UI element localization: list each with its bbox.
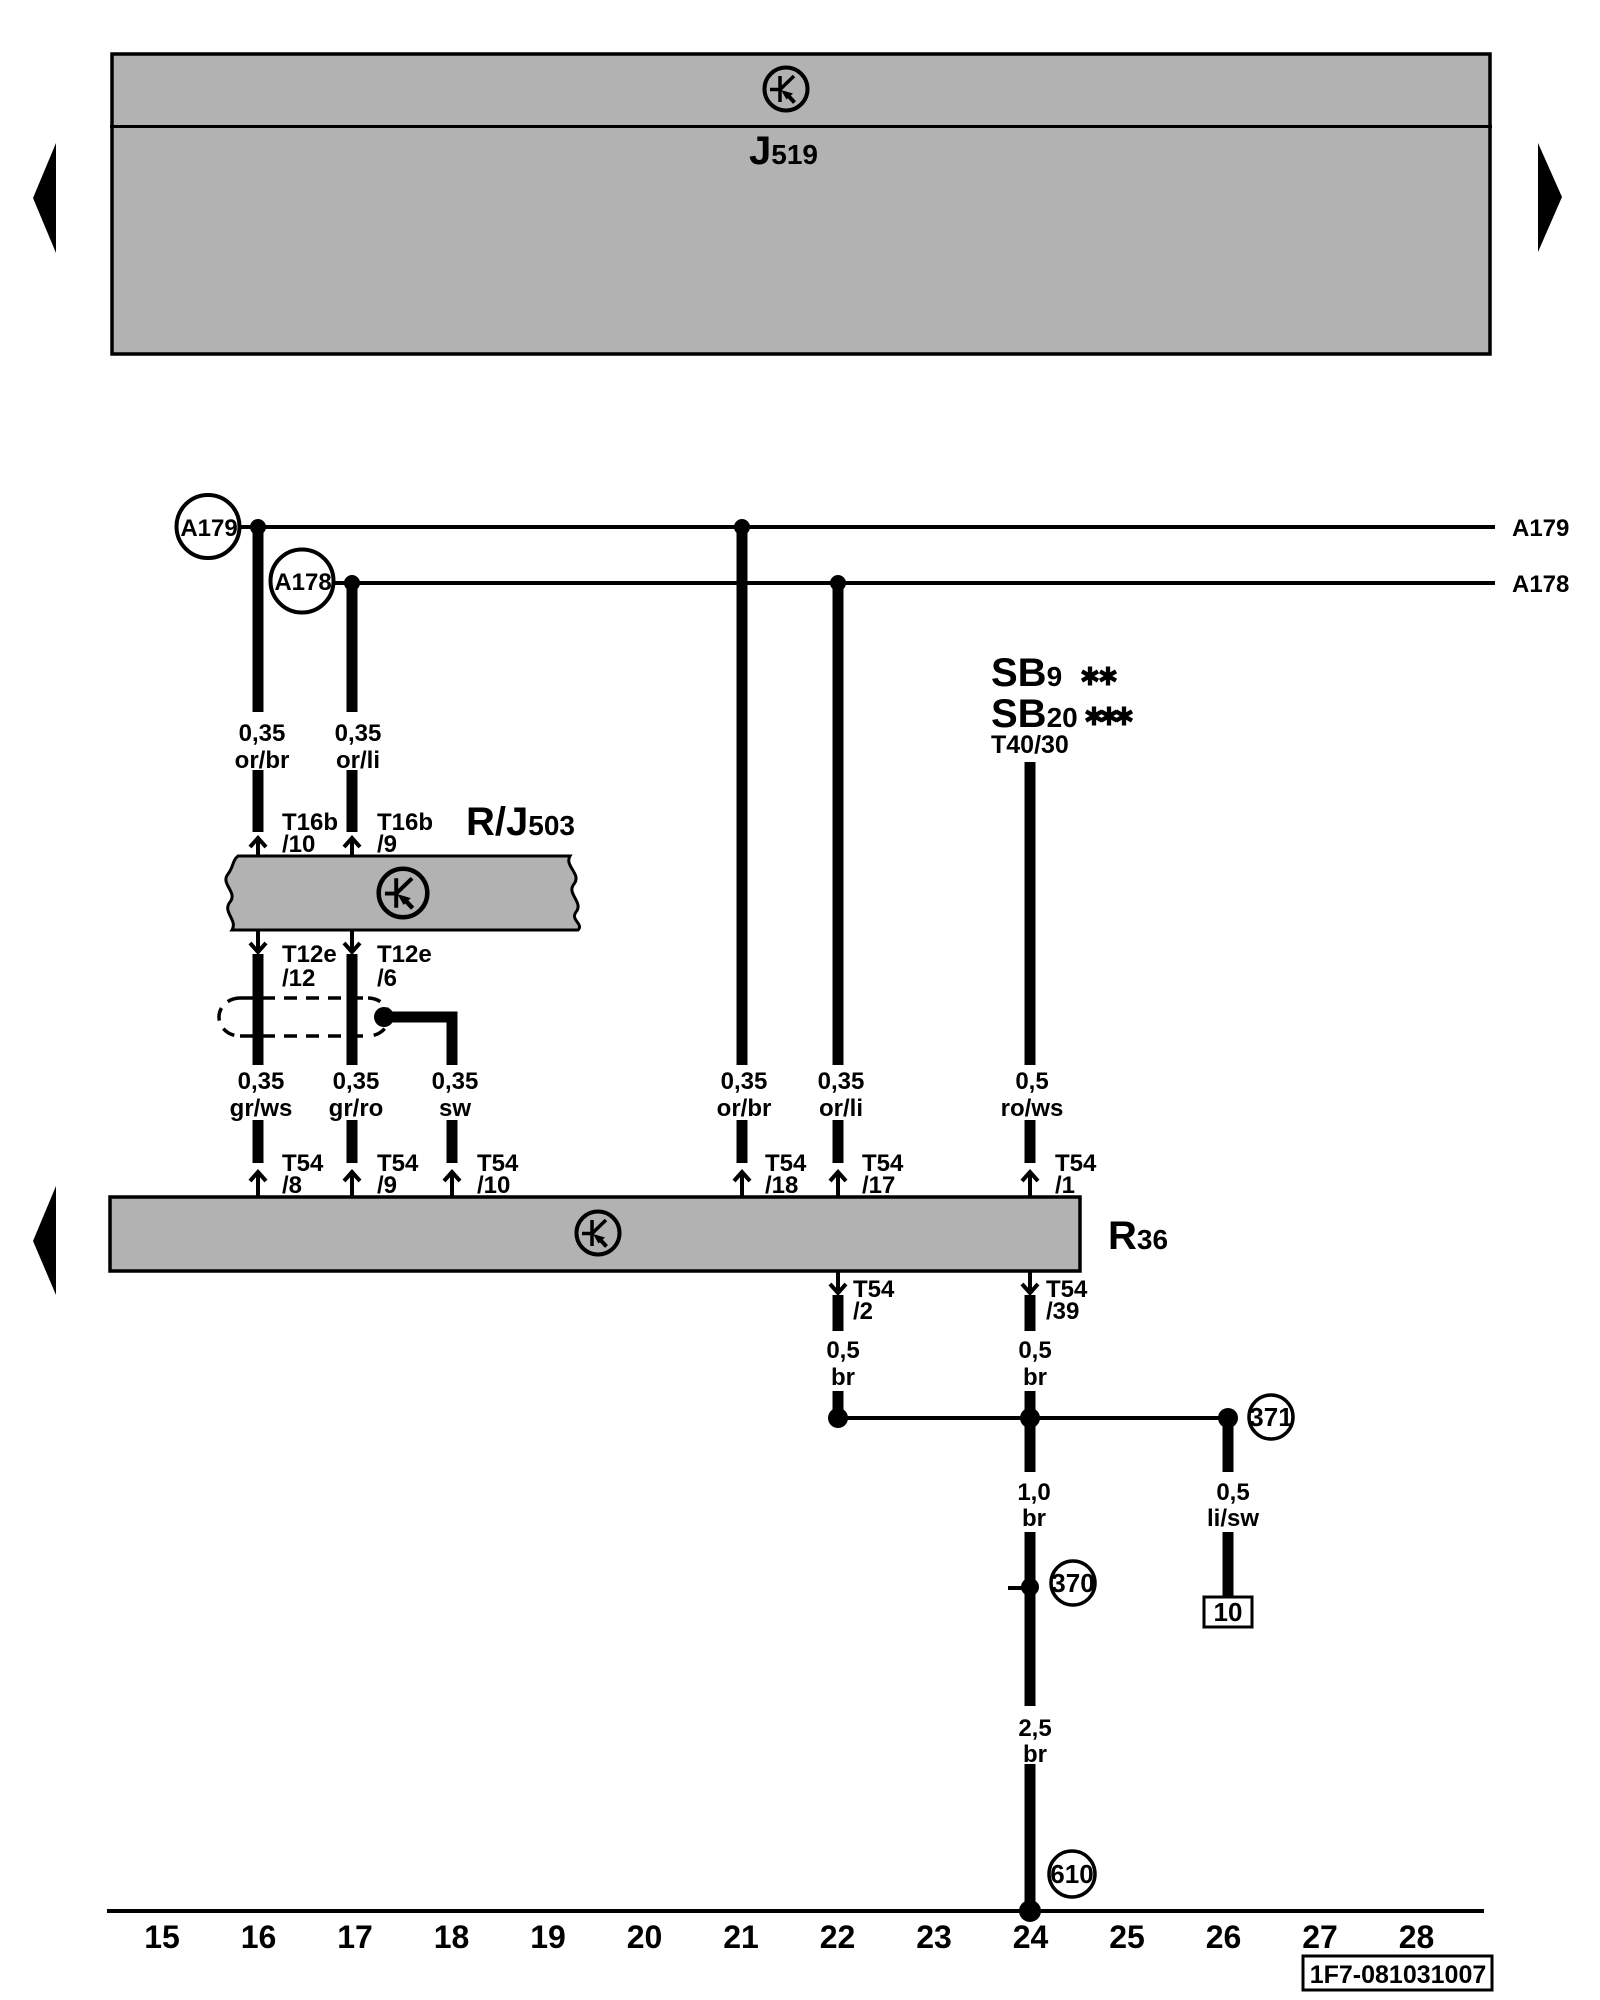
connector arrow into R36 pin T54/18 [734, 1172, 750, 1197]
svg-text:18: 18 [434, 1919, 470, 1955]
svg-text:sw: sw [439, 1095, 471, 1122]
wire 0,5 li/sw col26 upper [1223, 1418, 1234, 1472]
fuse label SB9 ** [991, 651, 1116, 695]
svg-text:0,35: 0,35 [333, 1068, 380, 1095]
connector arrow into R36 pin T54/17 [830, 1172, 846, 1197]
wire 0,35 or/li lower col17 [347, 770, 358, 832]
junction ground bus col24 [1020, 1408, 1040, 1428]
ground bus wire (y=1418) [838, 1416, 1228, 1420]
svg-text:A179: A179 [1512, 515, 1569, 542]
svg-text:28: 28 [1399, 1919, 1435, 1955]
pin label T16b/10 [282, 809, 338, 858]
ground connection node 371 [1249, 1395, 1293, 1439]
svg-text:/39: /39 [1046, 1298, 1079, 1325]
svg-text:A178: A178 [274, 569, 331, 596]
svg-text:0,5: 0,5 [1015, 1068, 1048, 1095]
current-flow symbol in R36 [577, 1212, 620, 1255]
svg-text:17: 17 [337, 1919, 373, 1955]
svg-text:/2: /2 [853, 1298, 873, 1325]
junction A178/column17 [344, 575, 360, 591]
svg-text:371: 371 [1249, 1402, 1292, 1432]
junction A179/column16 [250, 519, 266, 535]
svg-text:/6: /6 [377, 965, 397, 992]
wire segment into R36 T54/10 [447, 1120, 458, 1163]
svg-text:gr/ro: gr/ro [329, 1095, 384, 1122]
connector arrow into R/J503 pin T16b/9 [344, 838, 360, 857]
wire segment into R36 T54/18 [737, 1120, 748, 1163]
svg-text:15: 15 [144, 1919, 180, 1955]
track numbers 15-28 [144, 1919, 1434, 1955]
node A179 (connection, positive) [177, 495, 240, 558]
svg-text:610: 610 [1050, 1859, 1093, 1889]
svg-text:br: br [1023, 1364, 1047, 1391]
connector arrow into R36 pin T54/9 [344, 1172, 360, 1197]
svg-text:/10: /10 [282, 831, 315, 858]
junction ground bus col22 [828, 1408, 848, 1428]
pin label T54/1 [1055, 1150, 1097, 1199]
svg-text:gr/ws: gr/ws [230, 1095, 293, 1122]
svg-text:R36: R36 [1108, 1214, 1168, 1258]
wire 0,5 br col24 upper [1025, 1295, 1036, 1331]
stub at ground node 370 [1008, 1586, 1030, 1590]
svg-text:23: 23 [916, 1919, 952, 1955]
svg-text:0,5: 0,5 [1216, 1479, 1249, 1506]
wire label 0,35 sw col18 [432, 1068, 479, 1122]
J519 box internal separator line [110, 125, 1492, 128]
connector arrow out of R36 pin T54/39 [1022, 1271, 1038, 1293]
wire 0,35 sw elbow from drain node to column 18 [384, 1017, 452, 1065]
wire label 0,35 or/li col17 [335, 720, 382, 774]
svg-text:/18: /18 [765, 1172, 798, 1199]
svg-text:SB9: SB9 [991, 651, 1062, 695]
wire segment into R36 T54/17 [833, 1120, 844, 1163]
svg-text:li/sw: li/sw [1207, 1505, 1259, 1532]
svg-text:21: 21 [723, 1919, 759, 1955]
wire 0,35 gr/ro col17 [347, 954, 358, 1065]
svg-text:10: 10 [1214, 1597, 1243, 1627]
svg-text:0,35: 0,35 [238, 1068, 285, 1095]
continuation arrow right of J519 [1538, 143, 1562, 252]
svg-text:0,5: 0,5 [826, 1337, 859, 1364]
node A178 (connection) [271, 550, 334, 613]
svg-text:/8: /8 [282, 1172, 302, 1199]
junction ground bus col26 [1218, 1408, 1238, 1428]
svg-text:T40/30: T40/30 [991, 731, 1069, 759]
current-flow symbol in R/J503 [379, 869, 428, 918]
connector arrow out of R/J503 pin T12e/12 [250, 930, 266, 952]
diagram number box 1F7-081031007 [1303, 1956, 1492, 1990]
wire 1,0 br col24 lower [1025, 1532, 1036, 1706]
connector arrow out of R36 pin T54/2 [830, 1271, 846, 1293]
continuation arrow left of J519 [33, 143, 56, 253]
svg-text:ro/ws: ro/ws [1001, 1095, 1064, 1122]
wire label 0,35 or/li col22 [818, 1068, 865, 1122]
junction ground node 370 [1021, 1578, 1039, 1596]
svg-text:24: 24 [1013, 1919, 1049, 1955]
svg-text:or/br: or/br [235, 747, 290, 774]
continuation arrow left of R36 [33, 1186, 56, 1295]
connector arrow into R36 pin T54/8 [250, 1172, 266, 1197]
wire segment into R36 T54/9 [347, 1120, 358, 1163]
wire 0,35 or/li col22 [833, 583, 844, 1065]
pin label T54/39 [1046, 1276, 1088, 1325]
svg-text:R/J503: R/J503 [466, 800, 575, 844]
wire label 0,35 or/br col21 [717, 1068, 772, 1122]
wire segment into R36 T54/1 [1025, 1120, 1036, 1163]
svg-text:22: 22 [820, 1919, 856, 1955]
svg-text:/9: /9 [377, 831, 397, 858]
twisted-pair marking (dashed) around col16/col17 wires [219, 998, 389, 1036]
svg-text:1F7-081031007: 1F7-081031007 [1310, 1961, 1487, 1989]
fuse label SB20 *** [991, 692, 1132, 736]
pin label T12e/12 [282, 941, 337, 992]
wire 0,35 or/li upper col17 [347, 583, 358, 712]
current-flow symbol in J519 [765, 68, 808, 111]
svg-text:26: 26 [1206, 1919, 1242, 1955]
wire 0,5 br col24 lower [1025, 1391, 1036, 1418]
control unit J519 box [112, 54, 1490, 354]
pin label T12e/6 [377, 941, 432, 992]
wire label 0,5 li/sw col26 [1207, 1479, 1259, 1532]
svg-text:0,35: 0,35 [239, 720, 286, 747]
wire 0,5 ro/ws col24 [1025, 762, 1036, 1065]
connector arrow out of R/J503 pin T12e/6 [344, 930, 360, 952]
ground point 610 [1049, 1851, 1095, 1897]
wire 0,35 gr/ws col16 [253, 954, 264, 1065]
svg-text:/17: /17 [862, 1172, 895, 1199]
pin label T54/17 [862, 1150, 904, 1199]
junction ground 610 on earth line [1019, 1900, 1041, 1922]
connector strip R/J503 box [226, 856, 580, 930]
earth / track line bottom [107, 1909, 1484, 1913]
pin label T54/2 [853, 1276, 895, 1325]
svg-text:2,5: 2,5 [1018, 1715, 1051, 1742]
pin label T54/18 [765, 1150, 807, 1199]
connector arrow into R/J503 pin T16b/10 [250, 838, 266, 857]
wire 0,5 li/sw col26 lower [1223, 1532, 1234, 1598]
pin label T54/8 [282, 1150, 324, 1199]
svg-text:19: 19 [530, 1919, 566, 1955]
svg-text:br: br [831, 1364, 855, 1391]
svg-text:br: br [1022, 1505, 1046, 1532]
wire 0,35 or/br col21 [737, 527, 748, 1065]
connector arrow into R36 pin T54/1 [1022, 1172, 1038, 1197]
svg-text:/1: /1 [1055, 1172, 1075, 1199]
wire node A179 horizontal [240, 525, 1495, 529]
svg-text:br: br [1023, 1741, 1047, 1768]
wire label 0,35 gr/ws col16 [230, 1068, 293, 1122]
junction A178/column22 [830, 575, 846, 591]
wire label 0,35 or/br col16 [235, 720, 290, 774]
svg-text:T12e: T12e [282, 941, 337, 968]
svg-text:25: 25 [1109, 1919, 1145, 1955]
svg-text:T12e: T12e [377, 941, 432, 968]
svg-text:370: 370 [1051, 1568, 1094, 1598]
svg-text:16: 16 [241, 1919, 277, 1955]
wire segment into R36 T54/8 [253, 1120, 264, 1163]
junction A179/column21 [734, 519, 750, 535]
svg-text:0,5: 0,5 [1018, 1337, 1051, 1364]
wire label 2,5 br col24 [1018, 1715, 1051, 1768]
pin label T16b/9 [377, 809, 433, 858]
svg-text:A178: A178 [1512, 571, 1569, 598]
svg-text:0,35: 0,35 [335, 720, 382, 747]
svg-text:or/li: or/li [336, 747, 380, 774]
svg-text:A179: A179 [180, 515, 237, 542]
wire label 0,35 gr/ro col17 [329, 1068, 384, 1122]
svg-text:/10: /10 [477, 1172, 510, 1199]
svg-text:0,35: 0,35 [818, 1068, 865, 1095]
svg-text:1,0: 1,0 [1017, 1479, 1050, 1506]
svg-text:20: 20 [627, 1919, 663, 1955]
junction twisted pair drain node [374, 1007, 394, 1027]
wire 0,5 br col22 lower [833, 1391, 844, 1418]
wire 1,0 br col24 upper [1025, 1418, 1036, 1472]
radio R36 box [110, 1197, 1080, 1271]
svg-text:0,35: 0,35 [721, 1068, 768, 1095]
wire 2,5 br col24 bottom [1025, 1764, 1036, 1911]
svg-text:/12: /12 [282, 965, 315, 992]
wire label 1,0 br col24 [1017, 1479, 1050, 1532]
ground connection node 370 [1051, 1561, 1095, 1605]
pin label T54/10 [477, 1150, 519, 1199]
connector arrow into R36 pin T54/10 [444, 1172, 460, 1197]
svg-text:SB20: SB20 [991, 692, 1078, 736]
wire label 0,5 ro/ws col24 [1001, 1068, 1064, 1122]
wire node A178 horizontal [334, 581, 1495, 585]
wire 0,35 or/br upper col16 [253, 527, 264, 712]
svg-text:0,35: 0,35 [432, 1068, 479, 1095]
pin label T54/9 [377, 1150, 419, 1199]
svg-text:/9: /9 [377, 1172, 397, 1199]
wire label 0,5 br col24 [1018, 1337, 1051, 1391]
svg-text:or/br: or/br [717, 1095, 772, 1122]
wire 0,35 or/br lower col16 [253, 770, 264, 832]
wire label 0,5 br col22 [826, 1337, 859, 1391]
svg-text:or/li: or/li [819, 1095, 863, 1122]
terminal box 10 [1204, 1597, 1252, 1627]
wire 0,5 br col22 upper [833, 1295, 844, 1331]
svg-text:27: 27 [1302, 1919, 1338, 1955]
